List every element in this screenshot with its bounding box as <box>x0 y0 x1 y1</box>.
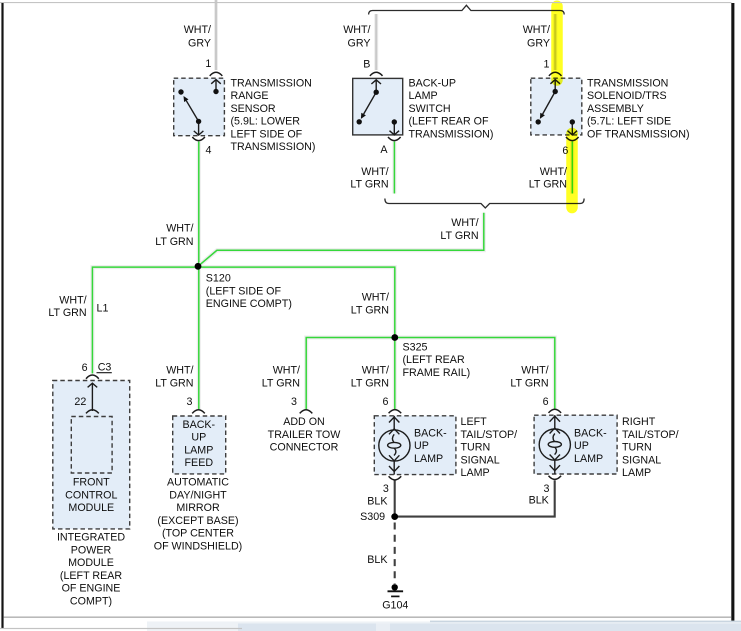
pin B switch <box>363 58 370 70</box>
svg-text:BACK-: BACK- <box>574 427 607 439</box>
svg-text:WHT/: WHT/ <box>166 223 193 235</box>
svg-text:3: 3 <box>543 483 549 495</box>
svg-text:OF ENGINE: OF ENGINE <box>62 583 121 595</box>
svg-text:(TOP CENTER: (TOP CENTER <box>162 528 234 540</box>
label WHT/LT GRN TRS pin4 wire <box>155 223 193 248</box>
wire WHT/GRY brace to back-up lamp switch pin B <box>374 14 378 70</box>
label WHT/LT GRN right lamp drop <box>510 365 548 390</box>
svg-text:WHT/: WHT/ <box>59 295 86 307</box>
svg-text:(LEFT REAR: (LEFT REAR <box>403 354 465 366</box>
svg-text:MIRROR: MIRROR <box>176 502 220 514</box>
svg-text:LT GRN: LT GRN <box>510 377 548 389</box>
page bottom border <box>4 617 732 618</box>
svg-text:6: 6 <box>543 396 549 408</box>
wire WHT/LT GRN transmission solenoid pin 6 to brace <box>570 142 574 194</box>
svg-text:UP: UP <box>574 440 589 452</box>
svg-text:3: 3 <box>383 483 389 495</box>
pin 6 right lamp <box>543 396 549 408</box>
svg-text:MODULE: MODULE <box>68 502 114 514</box>
svg-text:TURN: TURN <box>461 442 491 454</box>
label INTEGRATED POWER MODULE <box>57 532 125 608</box>
connector arc solenoid pin 1 <box>549 72 562 76</box>
label BACK-UP LAMP SWITCH <box>409 77 494 140</box>
svg-text:POWER: POWER <box>71 544 112 556</box>
wire WHT/LT GRN S120 to S325 <box>198 267 395 337</box>
svg-text:LT GRN: LT GRN <box>350 179 388 191</box>
svg-text:LAMP: LAMP <box>184 444 213 456</box>
svg-text:LAMP: LAMP <box>574 453 603 465</box>
module box INTEGRATED POWER MODULE <box>53 381 130 529</box>
svg-text:LAMP: LAMP <box>622 467 651 479</box>
svg-text:TRAILER TOW: TRAILER TOW <box>268 429 342 441</box>
svg-text:ADD ON: ADD ON <box>283 416 325 428</box>
svg-text:GRY: GRY <box>188 37 211 49</box>
svg-text:BACK-: BACK- <box>414 427 447 439</box>
svg-text:S120: S120 <box>206 273 231 285</box>
page right border bar <box>731 3 734 630</box>
label FRONT CONTROL MODULE <box>65 477 117 514</box>
pin 22 front control module <box>74 396 86 408</box>
svg-text:1: 1 <box>205 58 211 70</box>
svg-text:A: A <box>380 144 388 156</box>
wire WHT/LT GRN TRS pin 4 to S120 <box>197 142 201 267</box>
svg-text:WHT/: WHT/ <box>184 24 211 36</box>
pin 3 left lamp bottom <box>383 483 389 495</box>
svg-text:TRANSMISSION): TRANSMISSION) <box>409 128 494 140</box>
svg-text:1: 1 <box>544 58 550 70</box>
svg-text:FRAME RAIL): FRAME RAIL) <box>403 367 471 379</box>
label WHT/LT GRN left lamp drop <box>351 365 389 390</box>
node label S309 <box>360 511 385 523</box>
svg-text:FRONT: FRONT <box>73 477 110 489</box>
svg-text:CONTROL: CONTROL <box>65 489 117 501</box>
label WHT/LT GRN pin A wire <box>350 166 388 191</box>
node label S120 <box>206 273 292 311</box>
brace lower (pin A and pin 6 wires merge) <box>385 199 584 208</box>
svg-text:(5.9L: LOWER: (5.9L: LOWER <box>231 116 301 128</box>
svg-text:BLK: BLK <box>367 495 388 507</box>
pin 6 left lamp <box>383 396 389 408</box>
svg-text:LT GRN: LT GRN <box>155 377 193 389</box>
svg-text:LT GRN: LT GRN <box>262 377 300 389</box>
wire WHT/LT GRN S325 to right back-up lamp pin 6 <box>395 338 555 409</box>
svg-text:LT GRN: LT GRN <box>351 304 389 316</box>
connector arc left lamp pin 3 <box>389 476 402 480</box>
wire label L1 <box>97 302 109 314</box>
label BLK right lamp <box>529 495 550 507</box>
wire WHT/LT GRN S325 to left back-up lamp pin 6 <box>393 338 397 410</box>
svg-text:ASSEMBLY: ASSEMBLY <box>587 103 644 115</box>
contact dots TRS <box>178 89 218 124</box>
contact dots solenoid <box>536 89 576 125</box>
svg-text:SIGNAL: SIGNAL <box>461 454 500 466</box>
svg-text:TRANSMISSION: TRANSMISSION <box>587 77 668 89</box>
connector arc TRS pin 1 <box>210 72 223 76</box>
label WHT/LT GRN S120 left <box>48 295 86 320</box>
page top border <box>0 2 732 3</box>
connector arc solenoid pin 6 <box>566 137 579 141</box>
contact dots back-up lamp switch <box>357 90 397 125</box>
label left BACK-UP LAMP <box>414 427 447 465</box>
connector arc switch pin A <box>388 137 401 141</box>
wire WHT/GRY to transmission range sensor pin 1 <box>214 0 218 70</box>
svg-text:FEED: FEED <box>185 457 214 469</box>
label ADD ON TRAILER TOW CONNECTOR <box>268 416 342 454</box>
svg-text:LT GRN: LT GRN <box>155 236 193 248</box>
ground G104 <box>388 584 404 596</box>
bulb symbol right back-up lamp <box>539 415 570 474</box>
pin 1 TRS <box>205 58 211 70</box>
svg-text:RIGHT: RIGHT <box>622 416 656 428</box>
box BACK-UP LAMP FEED <box>173 416 226 474</box>
svg-text:TAIL/STOP/: TAIL/STOP/ <box>461 429 518 441</box>
svg-text:LT GRN: LT GRN <box>351 377 389 389</box>
pin 1 solenoid <box>544 58 550 70</box>
svg-text:G104: G104 <box>382 600 408 612</box>
svg-text:BLK: BLK <box>367 554 388 566</box>
label WHT/GRY wire 1 <box>184 24 211 49</box>
wire BLK left back-up lamp pin 3 to S309 <box>394 480 396 516</box>
svg-text:SIGNAL: SIGNAL <box>622 454 661 466</box>
label WHT/GRY wire 3 <box>523 24 550 49</box>
label WHT/LT GRN pin 6 wire <box>529 166 567 191</box>
switch contacts and arm <box>361 80 399 135</box>
connector arc trailer tow pin 3 <box>300 410 313 414</box>
svg-text:S325: S325 <box>403 341 428 353</box>
svg-text:GRY: GRY <box>348 37 371 49</box>
wire BLK S309 to right back-up lamp pin 3 <box>395 480 555 516</box>
svg-text:BACK-UP: BACK-UP <box>409 77 457 89</box>
svg-text:ENGINE COMPT): ENGINE COMPT) <box>206 298 292 310</box>
label WHT/LT GRN trailer tow drop <box>262 365 300 390</box>
label WHT/GRY wire 2 <box>343 24 370 49</box>
label TRANSMISSION SOLENOID/TRS ASSEMBLY <box>587 77 690 140</box>
svg-text:RANGE: RANGE <box>231 90 269 102</box>
svg-text:WHT/: WHT/ <box>451 217 478 229</box>
label right BACK-UP LAMP <box>574 427 607 465</box>
inner box FRONT CONTROL MODULE <box>71 417 112 474</box>
ground label G104 <box>382 600 408 612</box>
svg-text:LT GRN: LT GRN <box>440 230 478 242</box>
svg-text:UP: UP <box>191 432 206 444</box>
svg-text:LEFT SIDE OF: LEFT SIDE OF <box>231 128 303 140</box>
svg-text:4: 4 <box>206 144 212 156</box>
wire WHT/LT GRN back-up lamp switch pin A to brace <box>392 142 396 194</box>
pin 3 right lamp bottom <box>543 483 549 495</box>
svg-text:WHT/: WHT/ <box>523 24 550 36</box>
wire WHT/LT GRN S120 to back-up lamp feed <box>197 266 201 409</box>
page left border bar <box>1 3 3 628</box>
svg-text:CONNECTOR: CONNECTOR <box>270 442 339 454</box>
label LEFT TAIL/STOP/TURN SIGNAL LAMP <box>461 416 518 479</box>
svg-text:WHT/: WHT/ <box>362 292 389 304</box>
svg-text:(LEFT REAR: (LEFT REAR <box>60 570 122 582</box>
label TRANSMISSION RANGE SENSOR <box>231 77 316 153</box>
svg-text:TURN: TURN <box>622 442 652 454</box>
svg-text:INTEGRATED: INTEGRATED <box>57 532 125 544</box>
svg-text:L1: L1 <box>97 302 109 314</box>
svg-text:WHT/: WHT/ <box>273 365 300 377</box>
pin 6 solenoid <box>562 145 568 157</box>
label AUTOMATIC DAY/NIGHT MIRROR <box>154 477 242 553</box>
connector arc right lamp pin 6 <box>549 409 562 413</box>
label RIGHT TAIL/STOP/TURN SIGNAL LAMP <box>622 416 679 479</box>
svg-text:WHT/: WHT/ <box>540 166 567 178</box>
label BLK ground wire <box>367 554 388 566</box>
svg-text:SWITCH: SWITCH <box>409 103 451 115</box>
svg-text:(EXCEPT BASE): (EXCEPT BASE) <box>157 515 238 527</box>
switch contacts and arm solenoid <box>540 79 577 134</box>
svg-text:(LEFT REAR OF: (LEFT REAR OF <box>409 116 489 128</box>
pin 4 TRS <box>206 144 212 156</box>
svg-text:LT GRN: LT GRN <box>48 307 86 319</box>
connector arc C3 pin 6 <box>86 375 99 379</box>
node S325 splice <box>391 334 398 341</box>
wire WHT/GRY brace to transmission solenoid pin 1 <box>553 14 557 70</box>
svg-text:AUTOMATIC: AUTOMATIC <box>167 477 229 489</box>
svg-text:TRANSMISSION: TRANSMISSION <box>231 77 312 89</box>
bulb symbol left back-up lamp <box>379 416 410 475</box>
connector label C3 <box>97 362 112 374</box>
brace top (WHT/GRY feed split) <box>369 5 565 14</box>
highlight mark over solenoid pin 6 wire <box>566 134 578 208</box>
svg-text:C3: C3 <box>98 362 112 374</box>
svg-text:3: 3 <box>291 396 297 408</box>
svg-text:WHT/: WHT/ <box>361 166 388 178</box>
svg-text:WHT/: WHT/ <box>362 365 389 377</box>
switch box TRANSMISSION RANGE SENSOR <box>174 78 225 136</box>
connector arc right lamp pin 3 <box>549 476 562 480</box>
svg-text:BLK: BLK <box>529 495 550 507</box>
svg-text:WHT/: WHT/ <box>166 365 193 377</box>
svg-text:SOLENOID/TRS: SOLENOID/TRS <box>587 90 667 102</box>
connector arc TRS pin 4 <box>192 137 205 141</box>
wire WHT/LT GRN S325 to add-on trailer tow connector <box>306 338 395 410</box>
svg-text:DAY/NIGHT: DAY/NIGHT <box>169 489 227 501</box>
wire WHT/LT GRN S120 to C3 front control module <box>92 267 198 373</box>
connector arc left lamp pin 6 <box>389 410 402 414</box>
label BLK left lamp <box>367 495 388 507</box>
pin A switch <box>380 144 388 156</box>
node S120 splice <box>195 263 202 270</box>
switch contacts and arm TRS <box>184 79 221 135</box>
bottom window strip <box>147 622 741 631</box>
svg-text:S309: S309 <box>360 511 385 523</box>
svg-text:WHT/: WHT/ <box>521 365 548 377</box>
svg-text:22: 22 <box>74 396 86 408</box>
svg-text:LAMP: LAMP <box>409 90 438 102</box>
svg-text:LEFT: LEFT <box>461 416 488 428</box>
svg-text:6: 6 <box>383 396 389 408</box>
node label S325 <box>403 341 471 379</box>
svg-text:UP: UP <box>414 440 429 452</box>
svg-text:TAIL/STOP/: TAIL/STOP/ <box>622 429 679 441</box>
svg-text:COMPT): COMPT) <box>70 595 112 607</box>
svg-text:B: B <box>363 58 370 70</box>
node S309 splice <box>391 513 398 520</box>
connector arc lamp feed pin 3 <box>192 410 205 414</box>
svg-text:(LEFT SIDE OF: (LEFT SIDE OF <box>206 286 282 298</box>
wire BLK S309 to ground G104 (dashed) <box>394 523 396 585</box>
svg-text:LAMP: LAMP <box>414 453 443 465</box>
pin 6 C3 <box>82 362 88 374</box>
svg-text:LAMP: LAMP <box>461 467 490 479</box>
label WHT/LT GRN lamp feed drop <box>155 365 193 390</box>
switch box BACK-UP LAMP SWITCH <box>353 78 403 134</box>
connector arc switch pin B <box>370 72 383 76</box>
svg-text:LT GRN: LT GRN <box>529 179 567 191</box>
svg-text:SENSOR: SENSOR <box>231 103 276 115</box>
svg-text:MODULE: MODULE <box>68 557 114 569</box>
svg-text:3: 3 <box>187 396 193 408</box>
highlight mark over WHT/GRY wire to solenoid pin 1 <box>551 6 563 80</box>
svg-text:WHT/: WHT/ <box>343 24 370 36</box>
svg-text:OF TRANSMISSION): OF TRANSMISSION) <box>587 128 690 140</box>
lamp box left BACK-UP LAMP <box>374 416 456 475</box>
svg-text:BACK-: BACK- <box>182 419 215 431</box>
label BACK-UP LAMP FEED <box>182 419 215 469</box>
svg-text:OF WINDSHIELD): OF WINDSHIELD) <box>154 540 242 552</box>
svg-text:(5.7L: LEFT SIDE: (5.7L: LEFT SIDE <box>587 116 671 128</box>
wire WHT/LT GRN brace output to S120 <box>198 213 484 266</box>
label WHT/LT GRN brace output <box>440 217 478 242</box>
svg-text:6: 6 <box>82 362 88 374</box>
pin 3 lamp feed <box>187 396 193 408</box>
pin 3 trailer tow <box>291 396 297 408</box>
arrow into front control module pin 22 <box>88 383 98 411</box>
switch box TRANSMISSION SOLENOID/TRS ASSEMBLY <box>531 78 582 135</box>
label WHT/LT GRN S325 feed <box>351 292 389 317</box>
lamp box right BACK-UP LAMP <box>534 415 617 474</box>
svg-text:TRANSMISSION): TRANSMISSION) <box>231 141 316 153</box>
connector arc pin 22 <box>86 410 99 414</box>
svg-text:GRY: GRY <box>527 37 550 49</box>
